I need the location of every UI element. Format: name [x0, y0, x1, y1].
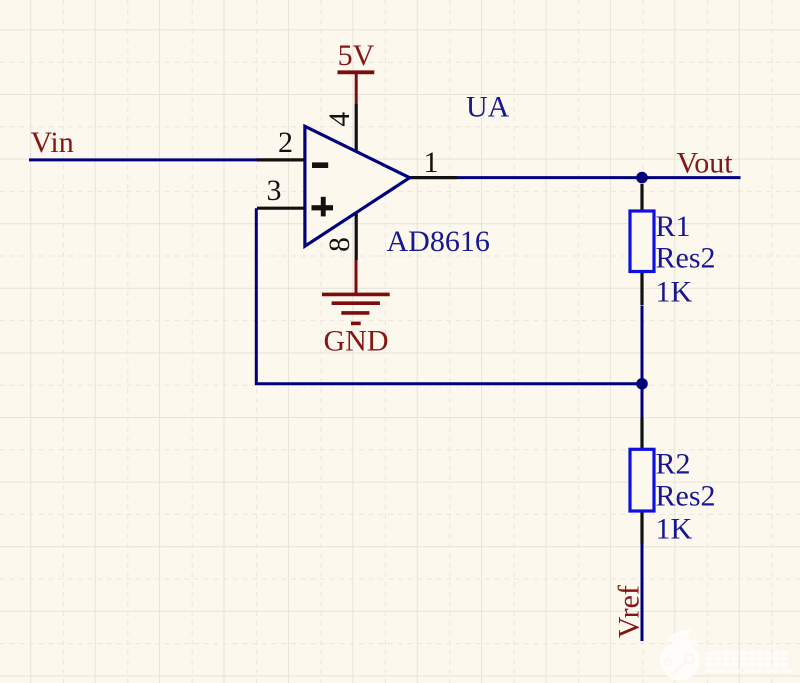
svg-text:Vref: Vref [613, 585, 646, 638]
svg-text:UA: UA [466, 90, 510, 123]
svg-text:4: 4 [324, 112, 356, 127]
svg-text:Vout: Vout [677, 147, 734, 180]
svg-text:AD8616: AD8616 [387, 225, 490, 258]
svg-text:1K: 1K [656, 513, 693, 546]
svg-text:Vin: Vin [31, 126, 74, 159]
svg-text:GND: GND [324, 325, 389, 358]
svg-text:3: 3 [267, 174, 282, 207]
svg-text:1K: 1K [656, 276, 693, 309]
svg-text:R2: R2 [656, 448, 691, 481]
svg-text:1: 1 [424, 146, 439, 179]
svg-text:5V: 5V [338, 39, 375, 72]
svg-text:8: 8 [324, 237, 356, 252]
svg-text:Res2: Res2 [656, 480, 716, 513]
svg-text:2: 2 [278, 126, 293, 159]
svg-text:R1: R1 [656, 210, 691, 243]
svg-text:Res2: Res2 [656, 242, 716, 275]
